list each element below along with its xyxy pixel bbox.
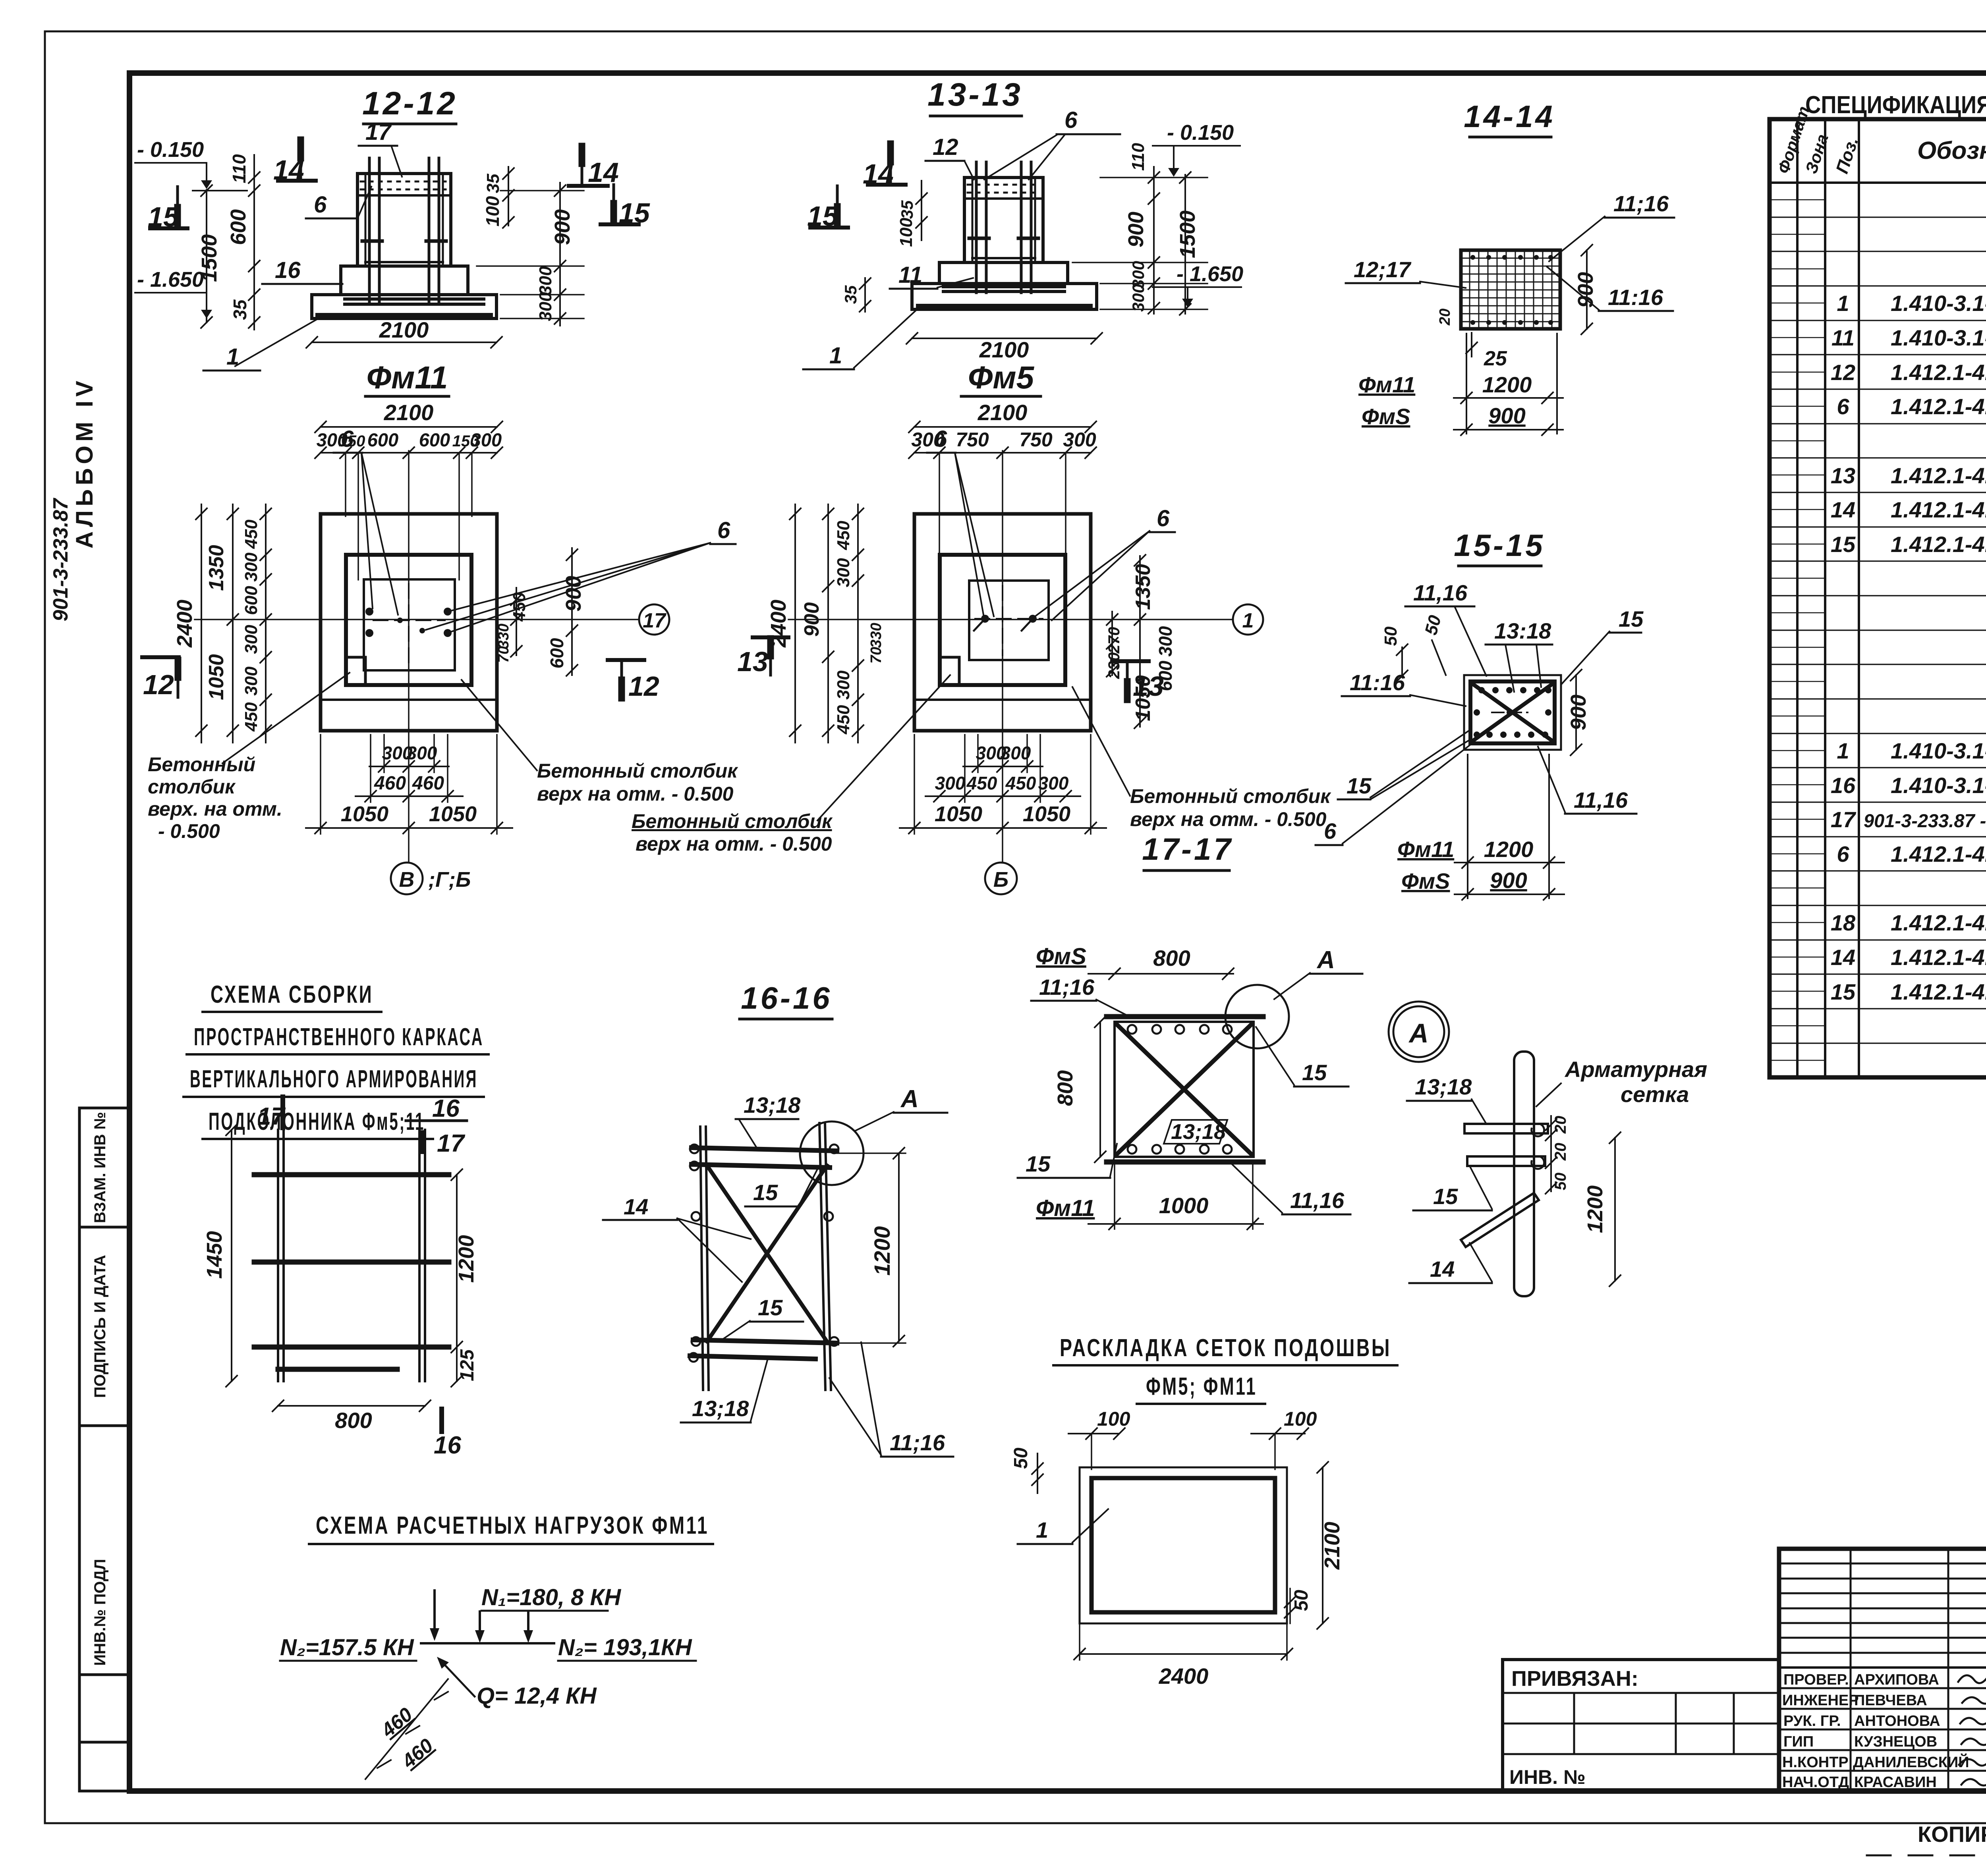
svg-text:верх на отм. - 0.500: верх на отм. - 0.500: [537, 783, 734, 805]
svg-text:КРАСАВИН: КРАСАВИН: [1854, 1774, 1937, 1791]
svg-text:2100: 2100: [384, 400, 434, 425]
svg-text:300: 300: [935, 773, 966, 793]
svg-text:800: 800: [1053, 1070, 1077, 1106]
dim 100 right: [1251, 1408, 1317, 1469]
dim 50 left: [1010, 1448, 1043, 1493]
anchor bolts: [365, 608, 452, 637]
svg-text:1.410-3.1-02: 1.410-3.1-02: [1891, 773, 1986, 798]
svg-text:6: 6: [1157, 506, 1170, 531]
spec table grid: [1770, 119, 1986, 1077]
cap hatch dots: [361, 181, 448, 183]
svg-text:1: 1: [829, 343, 842, 369]
bottom dim 460,460: [355, 735, 463, 802]
svg-text:600: 600: [547, 638, 567, 668]
svg-text:70: 70: [495, 646, 512, 663]
svg-text:Фм11: Фм11: [1397, 837, 1454, 862]
svg-text:верх. на отм.: верх. на отм.: [148, 798, 282, 820]
elevation mark -1.650: [135, 268, 212, 318]
svg-text:ФмS: ФмS: [1362, 404, 1410, 429]
dim 800 left: [1053, 1016, 1106, 1162]
svg-text:300: 300: [241, 552, 261, 582]
leader 1: [1018, 1509, 1108, 1544]
leader 11,16 top: [1405, 580, 1486, 676]
svg-text:ФмS: ФмS: [1036, 944, 1086, 969]
svg-text:1.410-3.1-12: 1.410-3.1-12: [1891, 291, 1986, 316]
svg-text:А: А: [1316, 946, 1335, 974]
svg-text:450: 450: [241, 519, 261, 549]
svg-text:11,16: 11,16: [1413, 580, 1468, 605]
svg-text:РУК. ГР.: РУК. ГР.: [1783, 1713, 1841, 1729]
svg-text:1.410-3.1-12: 1.410-3.1-12: [1891, 738, 1986, 763]
svg-text:1200: 1200: [454, 1235, 478, 1283]
bottom mesh bold line: [918, 304, 1090, 309]
leader 12;17 left: [1346, 257, 1466, 288]
svg-text:13;18: 13;18: [744, 1092, 801, 1117]
axis circle 1: [1233, 604, 1263, 635]
right dim 900/600: [547, 548, 585, 676]
X bracing: [1474, 685, 1551, 740]
svg-text:- 1.650: - 1.650: [1177, 262, 1243, 286]
svg-text:2400: 2400: [1159, 1664, 1209, 1689]
svg-text:13;18: 13;18: [692, 1396, 749, 1421]
svg-text:20: 20: [1552, 1143, 1569, 1161]
svg-text:ДАНИЛЕВСКИЙ: ДАНИЛЕВСКИЙ: [1853, 1753, 1969, 1771]
right dim 450/330/70: [495, 588, 529, 663]
horizontal bar 1: [1464, 1124, 1548, 1133]
svg-text:1500: 1500: [197, 234, 221, 282]
bottom bars: [693, 1340, 837, 1343]
svg-text:11;16: 11;16: [1613, 191, 1669, 216]
svg-text:14: 14: [1831, 497, 1855, 522]
dim 25: [1437, 309, 1507, 370]
leader 6 left: [334, 426, 398, 615]
leader 13:18: [1486, 618, 1552, 692]
svg-text:15: 15: [1433, 1184, 1458, 1209]
svg-text:800: 800: [1153, 946, 1190, 971]
column cap line: [357, 194, 451, 197]
detail circle A on corner: [1225, 985, 1289, 1048]
svg-text:1200: 1200: [1484, 837, 1534, 862]
mesh dots: [1470, 255, 1553, 325]
signatures squiggles: [1958, 1672, 1986, 1785]
section mark 14 right: [569, 146, 619, 188]
svg-text:17: 17: [643, 609, 667, 632]
load schema title: [316, 1512, 709, 1539]
svg-text:900: 900: [1124, 212, 1148, 247]
right dim 35/100: [482, 167, 514, 228]
leader 12: [925, 134, 974, 179]
svg-text:450: 450: [510, 592, 529, 622]
foundation step: [341, 266, 468, 295]
bottom dim 300,300: [963, 735, 1043, 772]
top bars: [692, 1148, 837, 1151]
leader 11;16 bottom right: [1231, 1164, 1350, 1214]
svg-text:14: 14: [624, 1194, 648, 1219]
ladder rails: [278, 1130, 425, 1381]
section mark 12 left: [142, 657, 179, 700]
center axes: [788, 619, 1233, 620]
bottom dim 1050 1050: [900, 735, 1106, 834]
svg-text:1050: 1050: [1023, 802, 1070, 826]
dim 1200: [1583, 1132, 1621, 1286]
svg-text:13;18: 13;18: [1415, 1074, 1472, 1099]
svg-text:столбик: столбик: [148, 776, 236, 798]
svg-text:300: 300: [1001, 743, 1031, 763]
leader 11:16 left: [1342, 670, 1466, 706]
leader 15 left: [1018, 1144, 1117, 1178]
wire hooks: [1532, 1124, 1544, 1136]
svg-text:1000: 1000: [1159, 1193, 1209, 1218]
svg-text:35: 35: [841, 285, 860, 304]
leader 17: [359, 119, 402, 177]
anchor bolts: [981, 615, 1037, 623]
svg-text:1200: 1200: [869, 1226, 894, 1276]
svg-text:2100: 2100: [978, 400, 1028, 425]
svg-text:11: 11: [1831, 325, 1855, 350]
svg-text:330: 330: [495, 623, 512, 648]
bottom rail bar: [1107, 1160, 1263, 1165]
svg-text:ФМ5; ФМ11: ФМ5; ФМ11: [1146, 1373, 1257, 1400]
stirrup hooks: [969, 237, 989, 240]
svg-text:13: 13: [1133, 671, 1164, 702]
foundation base slab: [312, 295, 496, 318]
svg-text:Обозначение: Обозначение: [1917, 137, 1986, 164]
svg-text:15: 15: [1302, 1060, 1327, 1085]
outer footprint: [321, 514, 497, 731]
svg-text:Бетонный: Бетонный: [148, 753, 255, 776]
svg-text:1.412.1-4.060: 1.412.1-4.060: [1891, 841, 1986, 867]
svg-text:1.412.1-4.081-02: 1.412.1-4.081-02: [1891, 532, 1986, 557]
svg-text:Б: Б: [993, 868, 1008, 892]
section 16-16 title: [741, 980, 832, 1015]
svg-text:20: 20: [1437, 309, 1453, 326]
svg-text:17-17: 17-17: [1142, 832, 1233, 867]
svg-text:13;18: 13;18: [1171, 1120, 1226, 1144]
svg-text:1.412.1-4.081-01: 1.412.1-4.081-01: [1891, 497, 1986, 522]
svg-text:ПОДПИСЬ И ДАТА: ПОДПИСЬ И ДАТА: [91, 1255, 109, 1398]
foundation step: [939, 262, 1068, 284]
slab outline: [1080, 1467, 1287, 1623]
section mark 12 right: [608, 660, 659, 702]
svg-text:;Г;Б: ;Г;Б: [428, 868, 471, 892]
svg-text:330: 330: [868, 623, 885, 648]
leader 15: [1413, 1166, 1492, 1210]
svg-text:Фм11: Фм11: [1036, 1195, 1095, 1221]
outer footprint: [914, 514, 1091, 731]
raskladka titles: [1060, 1334, 1391, 1400]
svg-text:1050: 1050: [341, 802, 388, 826]
svg-text:100: 100: [1097, 1408, 1130, 1430]
dim 800 top: [1088, 946, 1234, 979]
top dim 2100: [909, 400, 1096, 432]
leader 11,16 bottom right: [1538, 747, 1636, 814]
section mark 13 left: [737, 637, 788, 677]
svg-text:ИНЖЕНЕР: ИНЖЕНЕР: [1782, 1692, 1859, 1709]
svg-text:50: 50: [1381, 626, 1401, 646]
svg-text:ПРОСТРАНСТВЕННОГО КАРКАСА: ПРОСТРАНСТВЕННОГО КАРКАСА: [194, 1023, 484, 1051]
dim 2100 right: [1317, 1462, 1344, 1629]
axis circle B: [985, 863, 1017, 894]
leader 11;16 bottom right: [829, 1342, 953, 1457]
svg-text:ПОДКОЛОННИКА Фм5;11: ПОДКОЛОННИКА Фм5;11: [209, 1108, 425, 1135]
svg-text:11;16: 11;16: [1039, 975, 1095, 1000]
dim 1200: [834, 1148, 906, 1347]
left margin vertical text: album: [49, 377, 98, 621]
top dim chain 300 750 750 300: [909, 428, 1096, 580]
svg-text:900: 900: [551, 209, 574, 245]
stirrup cage square: [1464, 675, 1561, 750]
detail 14-14 title: [1464, 99, 1555, 134]
svg-text:Н.КОНТР: Н.КОНТР: [1782, 1754, 1849, 1771]
svg-text:11,16: 11,16: [1574, 787, 1628, 813]
mesh outline bold: [1092, 1478, 1275, 1612]
vertical rebar: [1514, 1052, 1534, 1296]
svg-text:15: 15: [753, 1180, 778, 1205]
svg-text:300: 300: [1155, 626, 1176, 656]
bottom mesh bold line: [318, 313, 491, 318]
sidebar rotated labels: [91, 1112, 109, 1666]
svg-text:6: 6: [314, 192, 327, 218]
center dashes: [975, 618, 1043, 620]
section mark 16 bottom: [434, 1409, 461, 1459]
svg-text:100: 100: [896, 218, 916, 247]
X bracing: [707, 1166, 827, 1341]
bottom dim 300,300: [369, 735, 449, 772]
svg-text:300: 300: [536, 292, 555, 321]
svg-text:2400: 2400: [173, 600, 197, 648]
svg-text:12: 12: [143, 669, 174, 700]
section mark 15 right: [601, 185, 650, 228]
svg-text:6: 6: [717, 517, 730, 543]
leader 13;18 top: [736, 1092, 801, 1148]
leader 15 left bottom: [1338, 731, 1470, 799]
svg-text:Фм11: Фм11: [1358, 372, 1415, 397]
socket outline: [969, 581, 1049, 660]
svg-text:1.412.1-4.081-02: 1.412.1-4.081-02: [1891, 979, 1986, 1004]
svg-text:901-3-233.87 -КЖИ.60.01.00-02: 901-3-233.87 -КЖИ.60.01.00-02: [1864, 810, 1986, 831]
svg-text:N₂=157.5 КН: N₂=157.5 КН: [280, 1635, 414, 1660]
svg-text:15: 15: [1026, 1151, 1051, 1176]
spec table title: [1805, 91, 1986, 119]
detail marker circle A: [1389, 1002, 1449, 1062]
diagonal bar: [1461, 1193, 1539, 1247]
section 13-13 title: [927, 77, 1023, 113]
svg-text:АРХИПОВА: АРХИПОВА: [1854, 1671, 1939, 1688]
section 12-12 title: [362, 85, 458, 122]
svg-text:В: В: [399, 868, 415, 892]
leader 6: [306, 187, 371, 218]
leader 1: [803, 308, 918, 369]
right dim 1500: [1072, 172, 1207, 315]
svg-text:ФмS: ФмS: [1401, 869, 1450, 894]
svg-text:12: 12: [1831, 360, 1855, 385]
svg-text:460: 460: [374, 773, 406, 794]
leader 15 top: [745, 1169, 817, 1206]
rebar dots: [1474, 687, 1551, 738]
svg-text:ИНВ.№ ПОДЛ: ИНВ.№ ПОДЛ: [91, 1559, 109, 1666]
svg-text:18: 18: [1831, 910, 1856, 935]
svg-text:1050: 1050: [935, 802, 982, 826]
svg-text:СПЕЦИФИКАЦИЯ ЭЛЕМЕНТОВ МОНОЛ: СПЕЦИФИКАЦИЯ ЭЛЕМЕНТОВ МОНОЛИТНЫХ ФУНДАМ…: [1805, 91, 1986, 119]
svg-text:17: 17: [365, 119, 392, 145]
svg-text:300: 300: [471, 429, 502, 450]
svg-text:А: А: [1408, 1018, 1428, 1048]
svg-text:Фм11: Фм11: [367, 360, 448, 395]
svg-text:70: 70: [868, 647, 885, 664]
svg-text:900: 900: [1488, 403, 1525, 428]
vertical rebars: [976, 162, 1031, 293]
plan FM11 title: [367, 360, 448, 395]
svg-text:1: 1: [1837, 291, 1849, 316]
detail 15-15 title: [1454, 528, 1545, 563]
svg-text:15: 15: [758, 1295, 783, 1320]
left dim chain 110/600/35: [226, 154, 260, 330]
label FmS top: [1036, 944, 1086, 969]
svg-text:16: 16: [434, 1432, 461, 1459]
mesh square: [1115, 1022, 1254, 1157]
svg-text:50: 50: [1291, 1590, 1312, 1611]
leader 6: [984, 107, 1120, 179]
svg-text:16: 16: [275, 257, 301, 283]
svg-text:ВЗАМ. ИНВ №: ВЗАМ. ИНВ №: [91, 1112, 109, 1223]
bottom dim 2100: [306, 317, 502, 348]
svg-text:20: 20: [1552, 1116, 1569, 1134]
right dim chain 110/900/300/300: [1124, 143, 1159, 314]
svg-text:14: 14: [588, 157, 619, 188]
dim 1200/125: [451, 1169, 478, 1387]
formwork lines: [365, 174, 367, 266]
svg-text:1.412.1-4.081: 1.412.1-4.081: [1891, 910, 1986, 935]
leader 11:16 bottom: [1547, 267, 1673, 311]
svg-text:1450: 1450: [203, 1231, 226, 1279]
svg-text:ИНВ. №: ИНВ. №: [1509, 1766, 1586, 1788]
elevation mark -0.150 right: [1153, 121, 1240, 177]
small dims 50/50: [1381, 613, 1446, 681]
formwork lines: [972, 178, 974, 262]
left dim 2400: [173, 504, 207, 743]
leader 1: [203, 318, 320, 371]
svg-text:11,16: 11,16: [1290, 1188, 1345, 1213]
svg-text:6: 6: [1064, 107, 1078, 133]
right dim 270/230/300/600: [1105, 612, 1176, 691]
svg-text:125: 125: [457, 1349, 478, 1381]
svg-text:1: 1: [226, 344, 239, 370]
svg-text:35: 35: [898, 200, 916, 219]
svg-text:- 1.650: - 1.650: [137, 268, 204, 291]
svg-text:СХЕМА РАСЧЕТНЫХ НАГРУЗОК ФМ11: СХЕМА РАСЧЕТНЫХ НАГРУЗОК ФМ11: [316, 1512, 709, 1539]
bottom dim 2100: [906, 333, 1102, 362]
svg-text:1350: 1350: [205, 545, 228, 591]
svg-text:1500: 1500: [1176, 210, 1200, 258]
svg-text:50: 50: [1010, 1448, 1032, 1469]
svg-text:1: 1: [1837, 738, 1849, 763]
bottom dim 300 450 450 300: [925, 735, 1080, 802]
left dim 900: [800, 504, 834, 743]
left small dims 35/100: [841, 181, 927, 312]
svg-text:300: 300: [241, 666, 261, 696]
svg-text:900: 900: [1574, 272, 1598, 308]
svg-text:800: 800: [335, 1408, 372, 1433]
bottom dashed remnant: [1867, 1855, 1986, 1857]
svg-text:300: 300: [1129, 284, 1148, 312]
svg-text:КУЗНЕЦОВ: КУЗНЕЦОВ: [1854, 1733, 1937, 1750]
load arrows: [421, 1590, 554, 1643]
svg-text:15-15: 15-15: [1454, 528, 1545, 563]
leader 6: [1316, 743, 1472, 845]
svg-text:1.412.1-4.060: 1.412.1-4.060: [1891, 394, 1986, 419]
svg-text:450: 450: [1005, 773, 1036, 793]
elevation mark -0.150: [135, 138, 247, 191]
leader A right: [1274, 946, 1362, 999]
dim table Fm11 1200 / Fm5 900: [1358, 334, 1563, 435]
center dash: [1492, 712, 1528, 713]
rails: [700, 1123, 831, 1390]
right dim 900/300/300: [477, 183, 584, 326]
leader 6 right: [426, 517, 736, 632]
svg-text:- 0.150: - 0.150: [1167, 121, 1234, 145]
svg-text:750: 750: [1019, 428, 1053, 451]
svg-text:600: 600: [367, 429, 398, 450]
horizontal rebars: [943, 285, 1064, 288]
boxed label 13;18: [1164, 1120, 1227, 1144]
svg-text:460: 460: [412, 773, 444, 794]
section mark 14 left: [863, 144, 906, 189]
socket outline: [364, 579, 455, 670]
section mark 15 left: [148, 187, 187, 232]
leader 6 right: [1035, 506, 1175, 620]
svg-text:1050: 1050: [429, 802, 477, 826]
leader 14: [1409, 1243, 1492, 1283]
mesh square: [1461, 250, 1560, 329]
svg-text:АНТОНОВА: АНТОНОВА: [1854, 1713, 1940, 1729]
svg-text:АЛЬБОМ IV: АЛЬБОМ IV: [71, 377, 98, 548]
bottom dim 1050 1050: [306, 735, 512, 834]
svg-text:11:16: 11:16: [1350, 670, 1405, 695]
column cap line: [964, 197, 1043, 200]
svg-text:15: 15: [1831, 979, 1856, 1004]
dim 100 left: [1068, 1408, 1130, 1469]
stirrup hooks: [362, 239, 382, 243]
svg-text:Бетонный столбик: Бетонный столбик: [537, 760, 738, 782]
svg-text:750: 750: [956, 428, 989, 451]
section mark 14 left: [273, 140, 316, 185]
svg-text:270: 270: [1105, 627, 1123, 654]
svg-text:1.410-3.1-01: 1.410-3.1-01: [1891, 325, 1986, 350]
svg-text:100: 100: [482, 196, 503, 226]
pedestal outline: [346, 555, 471, 685]
left dim 1500: [197, 185, 221, 328]
svg-text:2100: 2100: [979, 337, 1029, 362]
svg-text:11:16: 11:16: [1608, 285, 1663, 310]
leader 15 right: [1256, 1027, 1348, 1087]
dim 1450: [203, 1124, 237, 1387]
svg-text:16: 16: [1831, 773, 1856, 798]
diagonal dims 460/460: [365, 1679, 448, 1779]
foundation base slab: [912, 284, 1097, 309]
svg-text:верх на отм. - 0.500: верх на отм. - 0.500: [636, 833, 832, 855]
axis circle V: [391, 863, 471, 894]
spec table header texts: [1774, 104, 1986, 176]
X bracing: [1117, 1025, 1251, 1154]
leader 6 left: [927, 426, 994, 616]
load N1 text: [280, 1585, 692, 1709]
step edge: [914, 699, 1091, 701]
svg-text:450: 450: [241, 702, 261, 732]
svg-text:Арматурная: Арматурная: [1564, 1057, 1707, 1082]
svg-text:17: 17: [437, 1130, 465, 1157]
svg-text:600: 600: [419, 429, 450, 450]
svg-text:12;17: 12;17: [1354, 257, 1412, 282]
